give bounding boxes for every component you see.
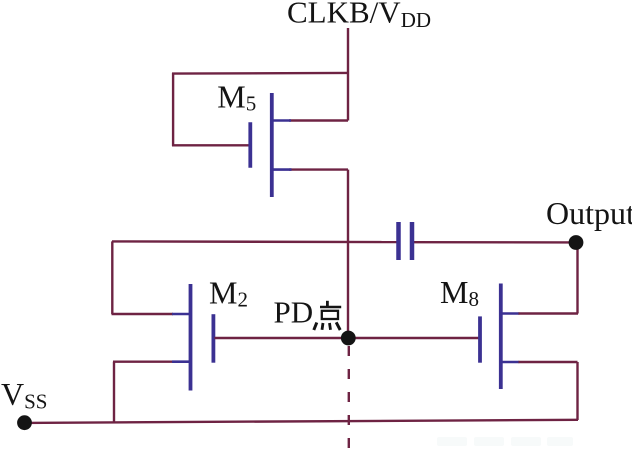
transistor M5 — [250, 93, 291, 197]
wire M2 drain — [112, 313, 174, 315]
svg-text:CLKB/VDD: CLKB/VDD — [287, 0, 431, 32]
wire capacitor row right to Output — [413, 241, 576, 244]
wire M8 source down to VSS rail — [576, 362, 578, 420]
svg-text:PD: PD — [274, 295, 314, 330]
node PD dot — [341, 331, 356, 346]
wire M5 drain — [289, 119, 348, 121]
wire capacitor row left — [112, 240, 397, 243]
transistor M8 — [480, 284, 519, 390]
svg-text:M5: M5 — [217, 79, 256, 116]
wire M5 source — [289, 168, 348, 170]
wire to M5 gate — [172, 144, 249, 146]
wire left side of M5 gate loop — [172, 73, 174, 146]
wire M5 source down to PD node — [347, 170, 349, 338]
wire PD node to M8 gate — [348, 337, 479, 339]
wire Output down to M8 drain — [576, 243, 578, 314]
wire VSS bottom rail — [24, 420, 578, 423]
capacitor C1 — [399, 222, 413, 260]
faint scan artifact band bottom right — [437, 437, 573, 446]
wire M8 source — [519, 361, 578, 363]
transistor M2 — [172, 284, 213, 391]
svg-text:VSS: VSS — [1, 376, 47, 414]
wire M8 drain — [519, 312, 579, 314]
dashed line below PD node — [348, 346, 350, 452]
wire top of M5 gate loop — [172, 72, 348, 75]
wire M2 source — [113, 361, 173, 363]
wire left rail upper — [111, 241, 113, 314]
wire left rail lower — [113, 362, 115, 423]
svg-text:M8: M8 — [440, 274, 479, 311]
wire VDD lead down to M5 drain — [347, 28, 349, 121]
node VSS dot — [17, 415, 32, 430]
svg-text:Output: Output — [546, 195, 632, 231]
glyph dian (CJK) drawn as strokes — [314, 301, 341, 330]
wire M2 gate to PD node — [215, 337, 349, 339]
svg-text:M2: M2 — [209, 275, 248, 312]
node Output dot — [569, 235, 584, 250]
